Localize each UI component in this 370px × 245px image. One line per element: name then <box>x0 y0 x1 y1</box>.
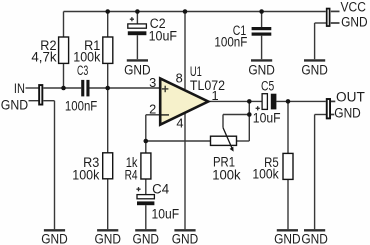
svg-text:GND: GND <box>41 230 68 245</box>
svg-text:100nF: 100nF <box>214 34 247 50</box>
svg-text:100k: 100k <box>72 166 100 182</box>
svg-text:TL072: TL072 <box>190 77 225 93</box>
svg-text:IN: IN <box>14 80 25 96</box>
svg-text:1: 1 <box>212 88 219 103</box>
svg-text:GND: GND <box>133 230 160 245</box>
svg-text:GND: GND <box>334 104 361 120</box>
svg-text:GND: GND <box>301 230 328 245</box>
svg-text:GND: GND <box>172 230 199 245</box>
svg-text:10uF: 10uF <box>149 28 178 44</box>
svg-text:2: 2 <box>149 102 156 117</box>
svg-text:GND: GND <box>124 62 151 78</box>
svg-text:100k: 100k <box>212 166 241 182</box>
svg-text:10uF: 10uF <box>152 206 180 222</box>
svg-text:8: 8 <box>176 70 183 85</box>
svg-text:C5: C5 <box>261 77 274 93</box>
svg-text:OUT: OUT <box>336 88 365 104</box>
svg-text:GND: GND <box>248 62 275 78</box>
svg-text:GND: GND <box>94 230 121 245</box>
svg-text:100nF: 100nF <box>65 97 98 113</box>
svg-text:GND: GND <box>1 97 28 113</box>
svg-text:C4: C4 <box>152 180 169 196</box>
svg-text:GND: GND <box>301 62 328 78</box>
svg-text:3: 3 <box>149 75 156 90</box>
svg-text:GND: GND <box>341 14 368 30</box>
svg-text:GND: GND <box>274 230 301 245</box>
svg-text:10uF: 10uF <box>253 110 281 126</box>
svg-text:4: 4 <box>176 115 183 130</box>
svg-text:R4: R4 <box>125 166 138 182</box>
svg-text:4,7k: 4,7k <box>31 48 57 64</box>
svg-text:100k: 100k <box>252 166 279 182</box>
svg-text:VCC: VCC <box>341 0 366 14</box>
svg-text:C3: C3 <box>77 62 88 78</box>
